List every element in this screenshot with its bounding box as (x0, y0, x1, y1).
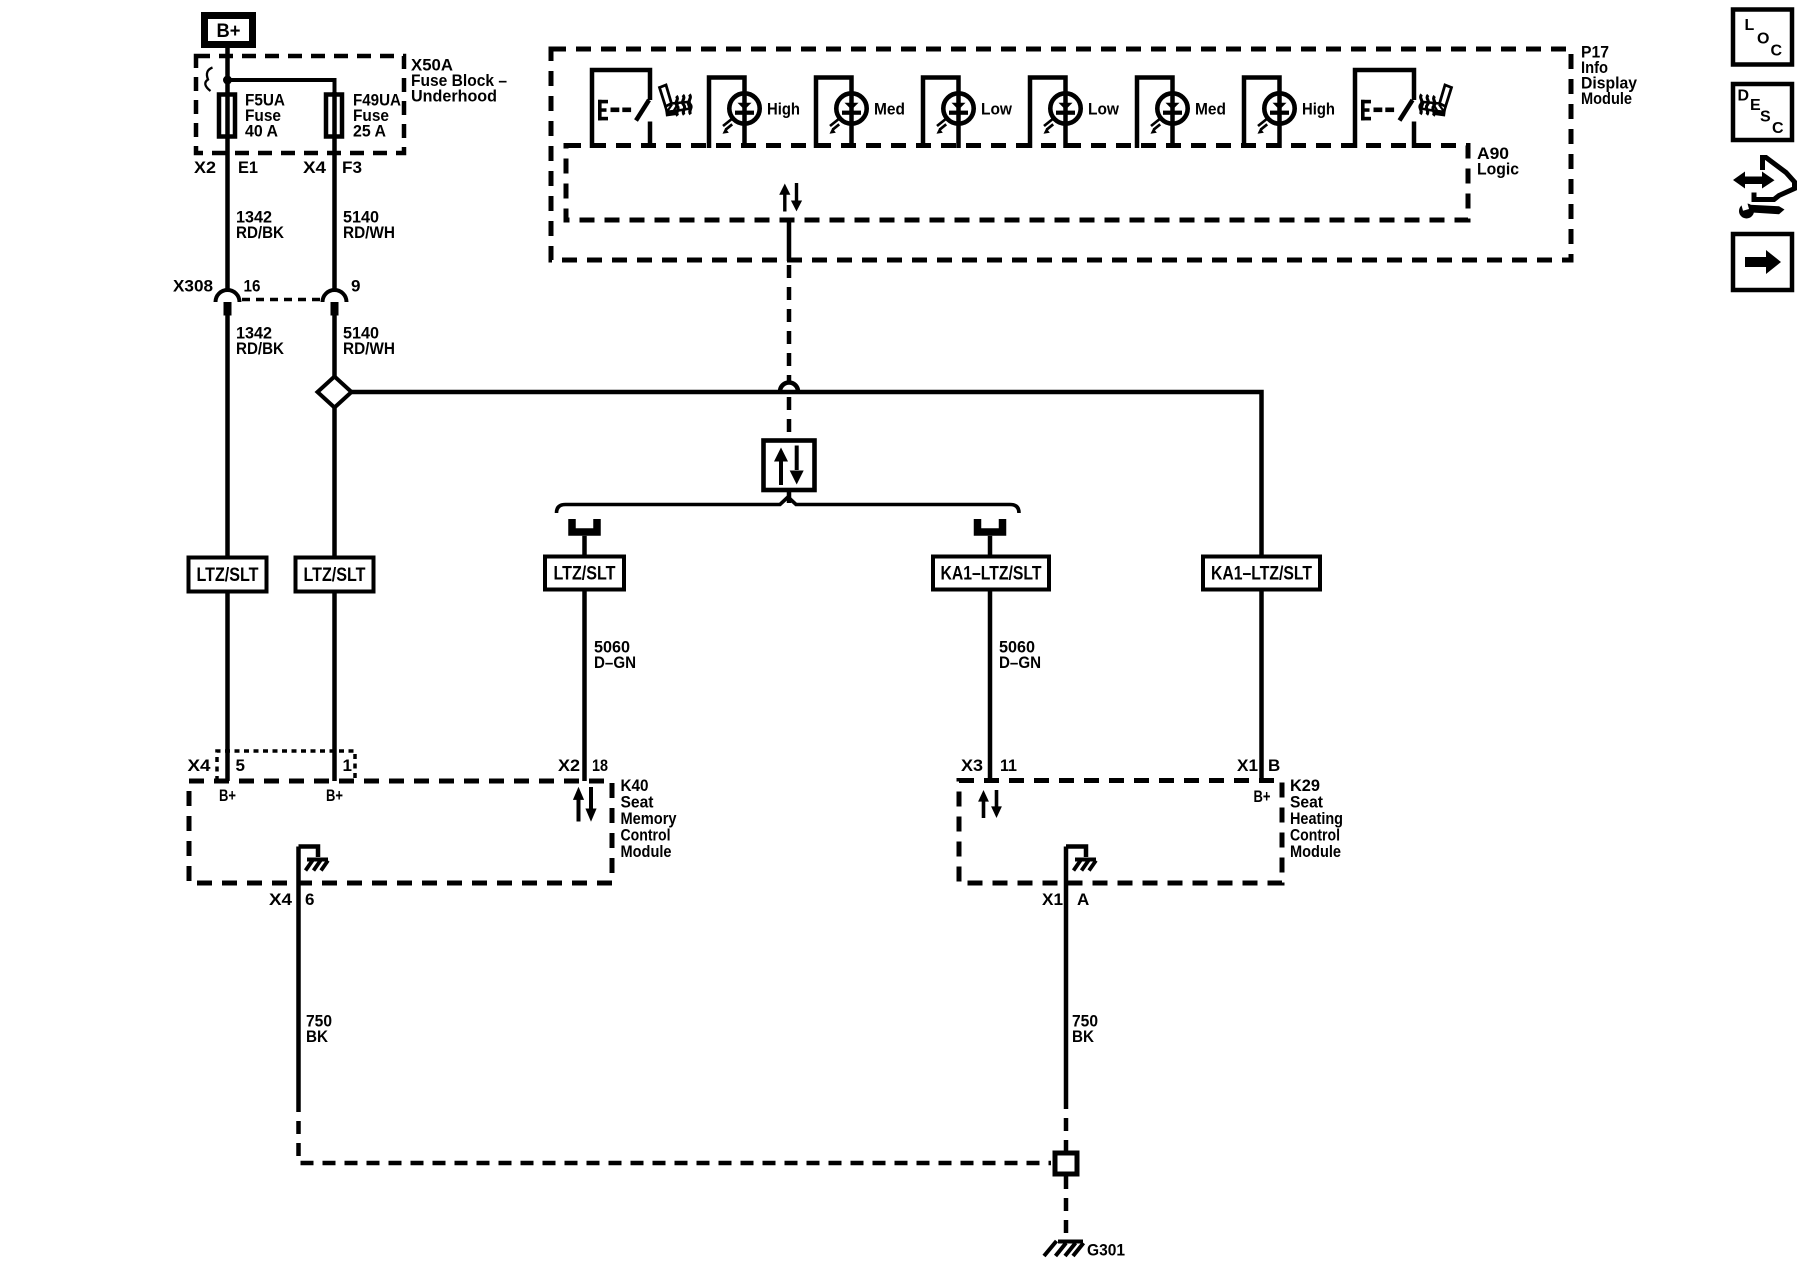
ground wire 750 BK from K29 (1064, 847, 1069, 1097)
svg-text:BK: BK (306, 1027, 329, 1046)
label 750 BK left (306, 1012, 332, 1047)
up/down arrows inside A90 logic (779, 183, 802, 212)
dashed ground run from K29 to splice box (1064, 1096, 1069, 1151)
svg-text:X2: X2 (194, 158, 216, 177)
svg-text:B+: B+ (217, 21, 241, 42)
module P17 Info Display Module dashed box (551, 49, 1571, 260)
label K40 Seat Memory Control Module (621, 776, 677, 861)
svg-text:D–GN: D–GN (594, 653, 636, 672)
wire into left LTZ/SLT tag (582, 536, 587, 557)
svg-text:D: D (1738, 88, 1750, 105)
data command box with up/down arrows (764, 441, 815, 491)
option tag LTZ/SLT circuit 5060 left (545, 557, 624, 590)
switch S1 E contact glyph (598, 100, 631, 121)
connector cavity symbol left (572, 519, 597, 532)
heated seat icon right (mirrored) (1420, 85, 1452, 117)
label 1342 RD/BK lower (236, 324, 285, 359)
icon box DESC (1733, 84, 1792, 140)
connector label X1 pin A below K29 (1042, 890, 1089, 909)
wire from B+ into fuse block (225, 48, 230, 92)
ground wire 750 BK from K40 (296, 847, 301, 1100)
label K29 Seat Heating Control Module (1290, 776, 1343, 861)
connector X308 dashed link (242, 298, 321, 302)
svg-text:A: A (1077, 890, 1089, 909)
logic output wire solid inside P17 (787, 218, 792, 261)
fuse block X50A dashed box (196, 56, 404, 153)
svg-text:B: B (1268, 756, 1280, 775)
svg-text:KA1–LTZ/SLT: KA1–LTZ/SLT (941, 564, 1042, 585)
indicator LED 5 symbol (1157, 93, 1187, 123)
svg-text:Med: Med (1195, 100, 1226, 119)
svg-text:B+: B+ (1254, 787, 1271, 806)
junction node on B+ feed (223, 76, 232, 85)
svg-text:X308: X308 (173, 277, 213, 296)
option tag LTZ/SLT circuit 5140 (296, 558, 374, 592)
bus hook symbol inside fuse block (205, 68, 212, 92)
svg-text:Module: Module (1581, 89, 1632, 108)
connector label X1 pin B at K29 (1237, 756, 1280, 775)
svg-text:RD/BK: RD/BK (236, 223, 285, 242)
connector cavity symbol right (978, 519, 1003, 532)
LED 3 emission arrows (933, 118, 948, 134)
svg-text:25 A: 25 A (353, 122, 386, 141)
svg-text:Module: Module (1290, 842, 1341, 861)
heated seat icon left (660, 85, 692, 117)
switch S1 blade (636, 100, 649, 121)
fuse F49UA 25 A (326, 92, 342, 139)
label F5UA Fuse 40 A (245, 91, 285, 141)
svg-text:Underhood: Underhood (411, 87, 497, 106)
heated seat switch S2 loop (1355, 70, 1414, 148)
label 5140 RD/WH (343, 208, 395, 243)
svg-text:LTZ/SLT: LTZ/SLT (554, 564, 616, 585)
up/down arrows inside K29 (978, 790, 1002, 818)
svg-text:RD/BK: RD/BK (236, 339, 285, 358)
svg-text:C: C (1771, 43, 1783, 60)
label 1342 RD/BK (236, 208, 285, 243)
indicator LED 6 symbol (1264, 93, 1294, 123)
wire 1342 RD/BK lower segment (225, 316, 230, 558)
label 5140 RD/WH lower (343, 324, 395, 359)
svg-text:High: High (1302, 100, 1335, 119)
wire bus link to second fuse (228, 80, 335, 92)
label A90 Logic (1477, 144, 1519, 179)
switch S2 blade (1400, 100, 1413, 121)
indicator LED 3 loop (923, 78, 959, 149)
svg-text:18: 18 (592, 756, 608, 775)
label 5060 D-GN left (594, 638, 636, 673)
svg-text:S: S (1760, 109, 1771, 126)
ground splice box (1055, 1153, 1077, 1174)
svg-text:5: 5 (236, 756, 245, 775)
LED 6 emission arrows (1254, 118, 1269, 134)
option tag KA1-LTZ/SLT right (1203, 557, 1320, 590)
svg-text:X4: X4 (269, 890, 293, 909)
label F49UA Fuse 25 A (353, 91, 401, 141)
svg-text:B+: B+ (219, 786, 236, 805)
svg-text:E1: E1 (238, 158, 258, 177)
indicator LED 2 loop (816, 78, 852, 149)
ground symbol inside K29 (1066, 847, 1096, 871)
switch S2 lower contact leg (1412, 122, 1417, 149)
wire LTZ/SLT 5140 down to K40 (332, 592, 337, 782)
LED 1 emission arrows (719, 118, 734, 134)
wire KA1 branch down to K29 (1259, 590, 1264, 781)
svg-text:High: High (767, 100, 800, 119)
wire 5140 RD/WH upper segment (332, 139, 337, 290)
svg-text:O: O (1757, 31, 1769, 48)
connector X308 terminal arc pin 16 (216, 290, 240, 316)
svg-text:KA1–LTZ/SLT: KA1–LTZ/SLT (1211, 564, 1312, 585)
svg-text:Low: Low (981, 100, 1013, 119)
svg-text:RD/WH: RD/WH (343, 339, 395, 358)
label P17 Info Display Module (1581, 43, 1637, 109)
logic output wire dashed lower (787, 397, 792, 440)
svg-text:1: 1 (343, 756, 352, 775)
svg-text:BK: BK (1072, 1027, 1095, 1046)
svg-text:LTZ/SLT: LTZ/SLT (304, 565, 366, 586)
svg-text:9: 9 (351, 277, 360, 296)
connector X4 dashed outline at K40 (217, 751, 355, 781)
dashed wire from splice box to G301 (1064, 1176, 1069, 1239)
svg-text:L: L (1745, 17, 1755, 34)
svg-text:D–GN: D–GN (999, 653, 1041, 672)
up/down arrows inside K40 (573, 787, 597, 822)
pin labels X2 E1 under fuse block (194, 158, 258, 177)
svg-text:X1: X1 (1042, 890, 1063, 909)
svg-text:X2: X2 (558, 756, 580, 775)
wire hop over main feed (780, 383, 798, 392)
connector X308 terminal arc pin 9 (323, 290, 347, 316)
module K40 dashed box (189, 781, 612, 883)
logic output wire dashed upper (787, 265, 792, 381)
svg-text:B+: B+ (326, 786, 343, 805)
connector label X4 pin 6 below K40 (269, 890, 314, 909)
svg-text:C: C (1772, 120, 1784, 137)
svg-text:X1: X1 (1237, 756, 1258, 775)
LED 4 emission arrows (1040, 118, 1055, 134)
indicator LED 4 loop (1030, 78, 1066, 149)
svg-text:Logic: Logic (1477, 160, 1519, 179)
main feed wire from splice to right side (352, 392, 1262, 557)
icon harness routing (arrows and wrench) (1733, 158, 1795, 219)
svg-text:Low: Low (1088, 100, 1120, 119)
connector label X4 pin 5 (188, 756, 245, 775)
svg-text:Module: Module (621, 842, 672, 861)
distribution brace (557, 497, 1020, 513)
splice diamond on circuit 5140 (318, 377, 352, 408)
svg-text:16: 16 (244, 277, 261, 296)
svg-text:X4: X4 (188, 756, 212, 775)
indicator LED 6 loop (1244, 78, 1280, 149)
label 750 BK right (1072, 1012, 1098, 1047)
ground symbol inside K40 (299, 847, 329, 871)
label X50A Fuse Block - Underhood (411, 56, 507, 106)
power symbol B+ (205, 16, 253, 45)
switch S2 E contact glyph (1361, 100, 1394, 121)
svg-text:Med: Med (874, 100, 905, 119)
indicator LED 4 symbol (1050, 93, 1080, 123)
svg-text:40 A: 40 A (245, 122, 278, 141)
heated seat switch S1 loop (592, 70, 650, 148)
switch S1 lower contact leg (648, 122, 653, 149)
svg-text:G301: G301 (1087, 1241, 1125, 1260)
fuse F5UA 40 A (219, 92, 235, 139)
wire from splice down to LTZ/SLT tag (332, 408, 337, 558)
svg-text:11: 11 (1000, 756, 1017, 775)
wire LTZ/SLT 1342 down to K40 (225, 592, 230, 782)
svg-text:X3: X3 (961, 756, 983, 775)
wire from command box to brace (787, 490, 792, 503)
icon box LOC (1733, 10, 1792, 65)
connector label X2 pin 18 at K40 (558, 756, 608, 775)
wire 1342 RD/BK upper segment (225, 139, 230, 290)
LED 5 emission arrows (1147, 118, 1162, 134)
option tag KA1-LTZ/SLT middle (933, 557, 1049, 590)
label 5060 D-GN right (999, 638, 1041, 673)
module K29 dashed box (959, 781, 1282, 884)
svg-text:RD/WH: RD/WH (343, 223, 395, 242)
svg-text:LTZ/SLT: LTZ/SLT (197, 565, 259, 586)
icon box forward arrow (1733, 234, 1792, 290)
logic block A90 dashed box (566, 146, 1468, 221)
pin labels X4 F3 under fuse block (303, 158, 362, 177)
LED 2 emission arrows (826, 118, 841, 134)
indicator LED 3 symbol (943, 93, 973, 123)
svg-text:F3: F3 (342, 158, 362, 177)
wire 5140 RD/WH lower segment (332, 316, 337, 378)
dashed ground run from K40 to splice box (299, 1099, 1052, 1163)
option tag LTZ/SLT circuit 1342 (189, 558, 267, 592)
indicator LED 1 loop (709, 78, 745, 149)
svg-text:X4: X4 (303, 158, 327, 177)
connector label X3 pin 11 at K29 (961, 756, 1017, 775)
indicator LED 5 loop (1137, 78, 1173, 149)
ground G301 symbol (1044, 1241, 1084, 1256)
indicator LED 2 symbol (836, 93, 866, 123)
wire into right KA1-LTZ/SLT tag (988, 536, 993, 557)
wire 5060 D-GN right (988, 590, 993, 781)
wire 5060 D-GN left (582, 590, 587, 782)
indicator LED 1 symbol (729, 93, 759, 123)
svg-text:6: 6 (305, 890, 314, 909)
